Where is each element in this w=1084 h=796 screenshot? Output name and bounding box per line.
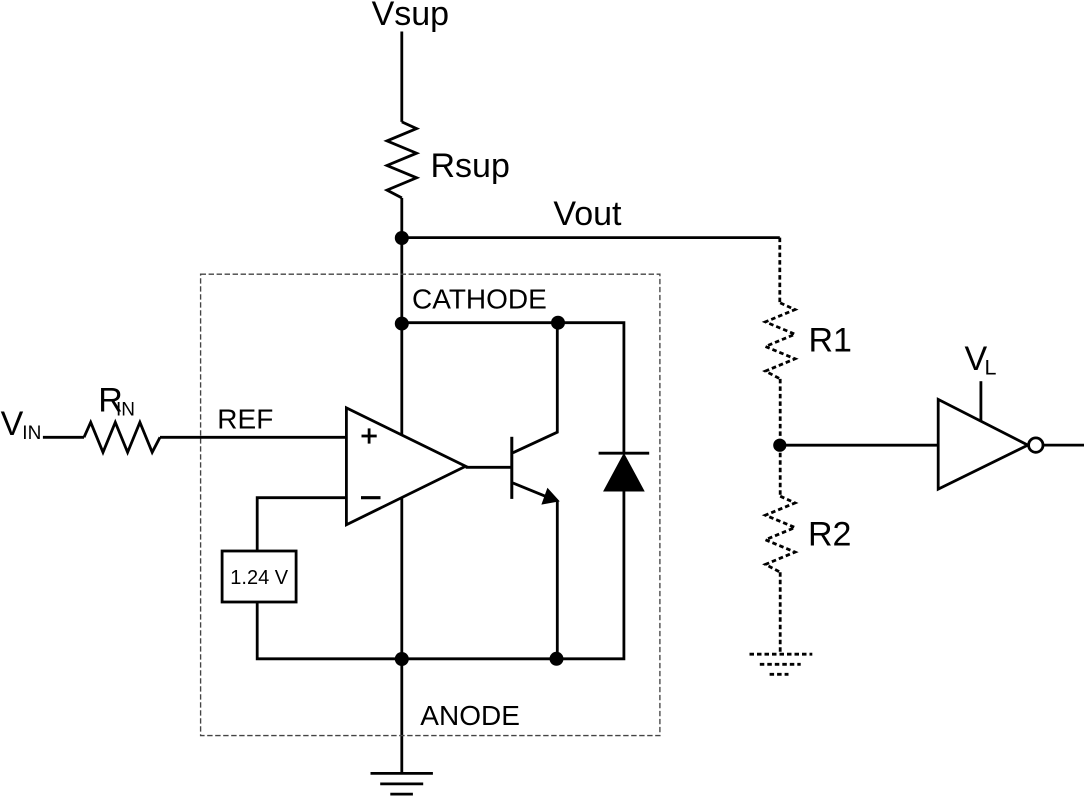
svg-text:1.24 V: 1.24 V (230, 567, 288, 589)
svg-text:REF: REF (217, 403, 273, 434)
svg-text:Vout: Vout (553, 195, 622, 233)
svg-text:IN: IN (22, 423, 41, 444)
svg-text:Vsup: Vsup (372, 0, 450, 33)
svg-text:ANODE: ANODE (420, 700, 520, 731)
svg-text:R1: R1 (809, 322, 852, 360)
svg-text:R2: R2 (808, 516, 851, 554)
svg-text:IN: IN (116, 400, 135, 421)
svg-text:L: L (985, 356, 997, 380)
svg-text:Rsup: Rsup (431, 147, 510, 185)
svg-text:CATHODE: CATHODE (412, 284, 547, 315)
svg-text:V: V (1, 405, 24, 443)
